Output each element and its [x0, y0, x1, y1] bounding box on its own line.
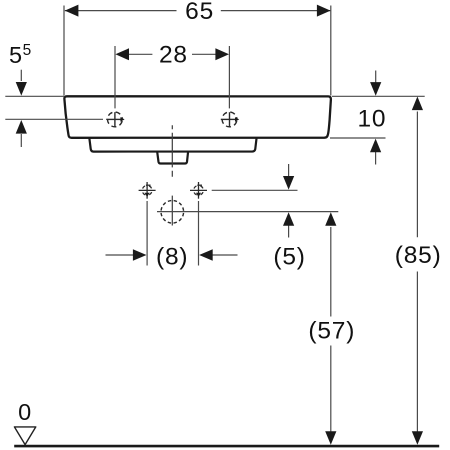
dimension 28 line	[128, 53, 217, 55]
vertical centerline of drain	[171, 125, 173, 177]
reference line y190 (fixing hole height)	[212, 189, 298, 191]
dimension (85) line	[416, 112, 418, 434]
dimension 10 reference line top	[332, 95, 425, 97]
datum triangle	[14, 427, 35, 445]
siphon dashed circle	[161, 201, 184, 224]
dimension 5.5 upper arrow	[20, 70, 22, 81]
dimension 28 extension line right	[228, 46, 230, 108]
dimension (57) top arrow	[325, 212, 336, 226]
washbasin lower body step	[89, 139, 256, 152]
reference line y211 (siphon height)	[157, 211, 338, 213]
dimension 65 right arrow	[317, 5, 331, 17]
dimension 28 right arrow	[215, 48, 229, 60]
dimension (85) top arrow	[412, 97, 423, 111]
dimension 10 upper arrow	[375, 71, 377, 84]
washbasin rim outline	[64, 96, 331, 138]
fixing hole right	[190, 182, 207, 199]
dimension 5.5 reference line bottom	[5, 118, 103, 120]
siphon vertical centerline	[171, 196, 173, 226]
svg-text:65: 65	[185, 0, 214, 25]
tap hole right	[221, 112, 237, 127]
dimension 65 extension line right	[330, 6, 332, 96]
dimension (5) lower arrow	[288, 225, 290, 238]
dimension 65 left arrow	[65, 5, 79, 17]
svg-text:28: 28	[159, 41, 188, 68]
svg-text:(8): (8)	[156, 244, 188, 271]
dimension (57) line	[330, 227, 332, 433]
dimension 65 line	[65, 10, 331, 12]
fixing hole left	[139, 182, 156, 199]
dimension (5) upper arrow	[288, 164, 290, 177]
dimension 10 reference line bottom	[330, 137, 386, 139]
svg-text:0: 0	[18, 399, 31, 425]
dimension (8) extension line right	[198, 201, 200, 266]
svg-text:5: 5	[9, 42, 22, 68]
floor line	[14, 445, 439, 448]
dimension 5.5 lower arrow	[20, 134, 22, 147]
dimension (8) right arrow with tail	[213, 254, 238, 256]
dimension (8) left arrow with tail	[106, 254, 134, 256]
dimension (85) bottom arrow	[412, 431, 423, 445]
svg-text:5: 5	[23, 42, 32, 59]
svg-text:(5): (5)	[273, 244, 305, 271]
dimension 28 extension line left	[114, 46, 116, 108]
svg-text:10: 10	[357, 106, 386, 133]
dimension 5.5 reference line top	[5, 95, 64, 97]
svg-text:(57): (57)	[308, 317, 355, 344]
dimension 65 extension line left	[63, 6, 65, 96]
drain boss	[157, 153, 188, 164]
svg-text:(85): (85)	[395, 242, 442, 269]
dimension 28 left arrow	[115, 48, 129, 60]
dimension 10 lower arrow	[375, 152, 377, 165]
dimension (8) extension line left	[146, 201, 148, 266]
tap hole left	[106, 112, 122, 127]
dimension (57) bottom arrow	[325, 431, 336, 445]
